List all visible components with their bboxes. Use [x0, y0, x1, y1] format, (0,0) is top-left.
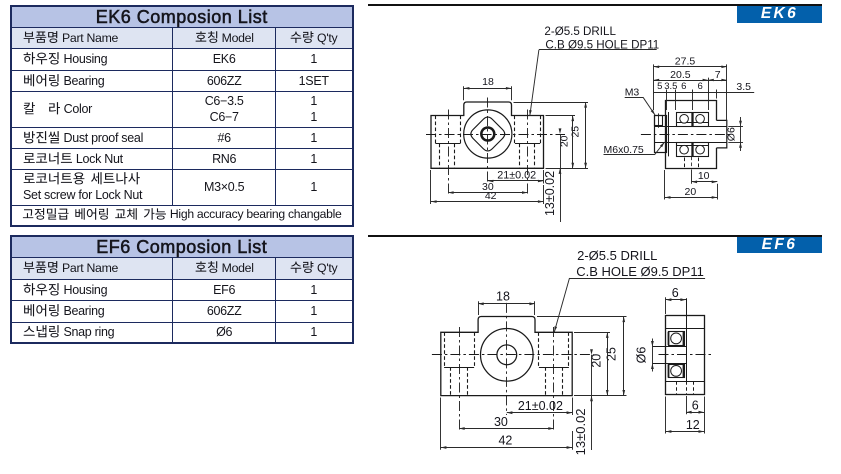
EF6 bore circle: [481, 329, 534, 382]
svg-text:3.5: 3.5: [664, 81, 677, 92]
EF6 side bearing top: [669, 332, 685, 346]
EK6 bearing bore circle: [464, 110, 512, 158]
EK6 bearings top row: [677, 113, 709, 127]
EF6 dim 25: [537, 316, 627, 318]
EF6 front housing outline: [441, 317, 572, 396]
EF6 side bore lines: [666, 328, 704, 330]
svg-text:C.B HOLE Ø9.5 DP11: C.B HOLE Ø9.5 DP11: [576, 264, 704, 279]
EK6 shaft bore (thick circle): [481, 128, 494, 141]
svg-text:27.5: 27.5: [675, 55, 696, 67]
EK6 left counterbore hole (hidden): [435, 116, 437, 144]
EK6 dim 18: [463, 86, 465, 100]
korean text glyph defs: [0, 0, 1, 1]
EK6 composition table: [10, 5, 354, 227]
EK6 M3 set screw: [655, 116, 663, 126]
svg-text:21±0.02: 21±0.02: [518, 399, 563, 413]
svg-text:Ø6: Ø6: [725, 127, 737, 141]
EF6 dim 30: [459, 428, 554, 430]
EF6 side centerline: [659, 354, 714, 356]
EK6 side shaft lines: [654, 126, 727, 128]
svg-text:6: 6: [692, 398, 699, 412]
svg-text:25: 25: [570, 126, 582, 138]
EK6 bore diamond (rotated square): [471, 117, 505, 151]
svg-text:10: 10: [698, 170, 710, 182]
EF6 dim 18: [478, 301, 480, 315]
EK6 drill note leader: [539, 49, 657, 51]
svg-text:20: 20: [685, 186, 697, 198]
svg-text:21±0.02: 21±0.02: [497, 170, 536, 182]
EK6 side dim 10: [691, 170, 693, 184]
svg-text:42: 42: [498, 434, 512, 448]
EF6 dim 13±0.02: [591, 355, 593, 450]
EK6 drawing area separator rule: [368, 4, 822, 6]
EK6 lock nut: [655, 116, 667, 153]
svg-text:3.5: 3.5: [736, 81, 751, 93]
EK6 dim 42: [430, 170, 432, 204]
svg-text:18: 18: [496, 290, 510, 304]
svg-text:25: 25: [604, 347, 618, 361]
EF6 front centerlines: [432, 354, 594, 356]
EK6 dia6 dim: [728, 126, 743, 128]
EK6 seal: [668, 112, 670, 156]
svg-text:18: 18: [482, 76, 494, 88]
EF6 side dim 12: [665, 397, 667, 434]
svg-text:20.5: 20.5: [670, 69, 691, 81]
svg-text:2-Ø5.5 DRILL: 2-Ø5.5 DRILL: [544, 25, 616, 38]
svg-text:30: 30: [494, 415, 508, 429]
EK6 bearings bottom row: [677, 143, 709, 157]
EF6 side shaft hole lines: [653, 346, 686, 348]
EF6 drawing area separator rule: [368, 235, 822, 237]
EF6 side dia6: [652, 339, 654, 372]
svg-text:6: 6: [698, 81, 703, 92]
EF6 right counterbore hole (hidden): [538, 332, 540, 367]
svg-text:13±0.02: 13±0.02: [543, 171, 557, 216]
EK6 dim 21±0.02: [543, 170, 545, 184]
EK6 dim 13±0.02: [560, 134, 562, 222]
svg-text:13±0.02: 13±0.02: [573, 408, 588, 455]
svg-text:M6x0.75: M6x0.75: [604, 144, 644, 156]
EK6 front view: housing body outline: [431, 102, 544, 168]
svg-text:5: 5: [657, 81, 662, 92]
svg-text:42: 42: [485, 190, 497, 202]
EF6 dim 42: [440, 398, 442, 450]
svg-text:Ø6: Ø6: [635, 347, 649, 364]
EK6 side housing block: [666, 101, 717, 169]
EK6 dim 25: [514, 102, 589, 104]
EF6 dim 21±0.02: [572, 398, 574, 416]
EF6 badge: [737, 237, 822, 253]
EF6 side housing block: [666, 316, 705, 395]
EF6 shaft hole circle: [497, 345, 517, 365]
EK6 side centerline: [641, 134, 731, 136]
EK6 front centerlines: [426, 134, 565, 136]
svg-text:6: 6: [681, 81, 686, 92]
EK6 side hidden mount hole: [684, 158, 686, 169]
EF6 side dim 6 top: [665, 297, 667, 314]
EF6 dim 20: [574, 332, 610, 334]
svg-text:6: 6: [672, 286, 679, 300]
EK6 dim 20: [546, 115, 576, 117]
EK6 side small dims 5 3.5 6 6 and 3.5: [666, 90, 668, 111]
svg-text:M3: M3: [625, 87, 640, 99]
EF6 side bore step / snap ring line: [686, 298, 688, 381]
EK6 side dim 20: [664, 170, 666, 200]
svg-text:12: 12: [686, 418, 700, 432]
EK6 side dim 27.5: [653, 64, 655, 110]
svg-text:2-Ø5.5 DRILL: 2-Ø5.5 DRILL: [577, 248, 657, 263]
EF6 side dim 6 bottom: [686, 396, 688, 414]
EK6 badge: [737, 6, 822, 23]
EK6 side pilot/shaft step: [717, 120, 727, 147]
EF6 left counterbore hole (hidden): [444, 332, 446, 367]
svg-text:7: 7: [715, 69, 721, 81]
EK6 right counterbore hole (hidden): [514, 116, 516, 144]
EF6 drill note leader: [570, 278, 706, 280]
svg-text:C.B Ø9.5 HOLE DP11: C.B Ø9.5 HOLE DP11: [545, 39, 659, 52]
EK6 dim 30: [448, 192, 528, 194]
EK6 side dim 20.5 / 7: [708, 78, 710, 110]
EF6 side bearing bottom: [669, 365, 685, 378]
EF6 composition table: [10, 235, 354, 344]
EF6 side hidden holes: [676, 381, 678, 394]
